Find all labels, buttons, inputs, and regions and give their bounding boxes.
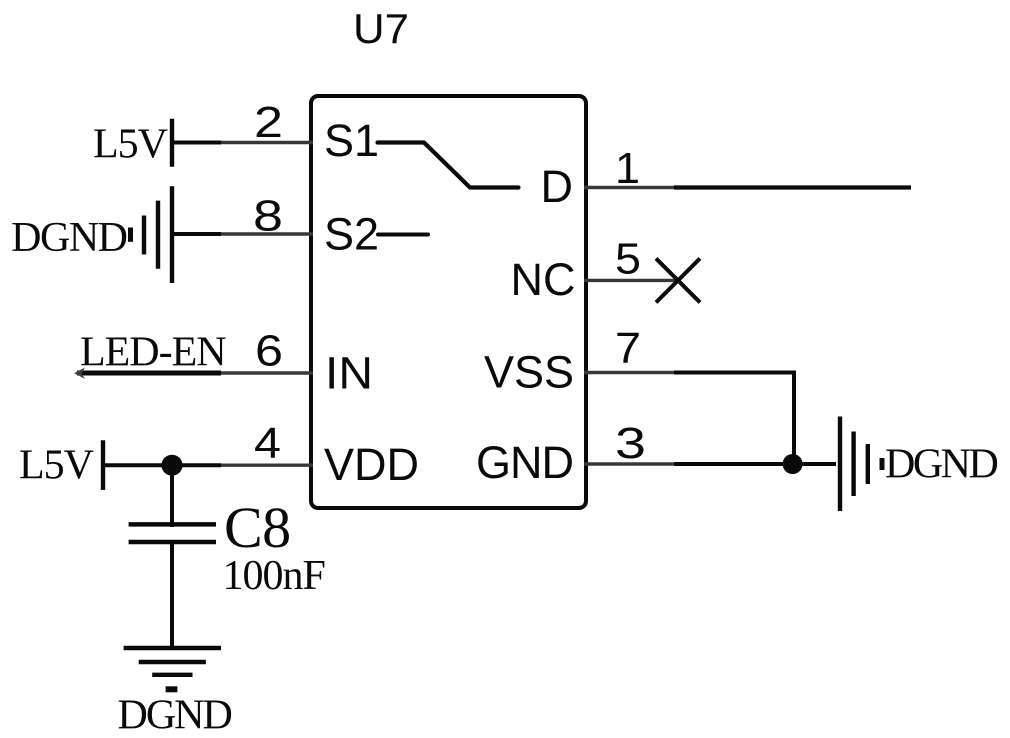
svg-text:DGND: DGND (885, 442, 997, 488)
wire C8 to ground (170, 540, 174, 650)
wire VDD node down to C8 (170, 465, 174, 527)
ground symbol DGND pin8 medium bar (156, 201, 160, 269)
wire GND pin3 to ground (674, 462, 836, 466)
ground symbol DGND right short bar (866, 444, 870, 484)
svg-text:L5V: L5V (93, 122, 168, 168)
ground symbol DGND pin8 dash (128, 228, 133, 242)
pin 4 stub (216, 464, 313, 467)
wire net D pin1 (674, 185, 911, 189)
ground symbol DGND pin8 short bar (142, 216, 146, 255)
junction dot at VDD (162, 455, 183, 476)
switch symbol S1 to D (378, 143, 519, 188)
svg-text:U7: U7 (353, 5, 409, 52)
terminal bar L5V pin2 (170, 119, 174, 167)
pin 6 stub (216, 371, 313, 374)
capacitor C8 top plate (129, 522, 216, 527)
pin 5 stub (584, 279, 679, 282)
svg-text:C8: C8 (224, 495, 291, 560)
pin 2 stub (216, 141, 313, 144)
svg-text:DGND: DGND (11, 215, 126, 261)
pin 8 stub (216, 232, 313, 235)
wire LED-EN to pin6 (77, 371, 221, 376)
ground symbol DGND bottom bar1 (124, 646, 221, 650)
svg-text:7: 7 (615, 324, 641, 373)
wire L5V to pin2 (172, 141, 221, 145)
pin 1 stub (584, 186, 678, 189)
svg-text:S2: S2 (324, 209, 379, 260)
wire DGND to pin8 (172, 232, 221, 236)
ground symbol DGND right medium bar (851, 432, 855, 497)
ground symbol DGND right tall bar (838, 417, 842, 512)
svg-text:GND: GND (476, 437, 573, 488)
pin 7 stub (584, 371, 678, 374)
svg-text:6: 6 (255, 327, 283, 376)
svg-text:IN: IN (325, 348, 373, 399)
svg-text:4: 4 (254, 419, 281, 468)
junction dot at GND (783, 454, 803, 474)
svg-text:DGND: DGND (118, 693, 232, 738)
svg-text:S1: S1 (324, 115, 379, 166)
svg-text:L5V: L5V (19, 443, 94, 489)
ground symbol DGND bottom bar2 (139, 660, 206, 664)
svg-text:3: 3 (615, 419, 646, 468)
svg-text:5: 5 (615, 235, 641, 284)
svg-text:2: 2 (254, 98, 283, 147)
wire VSS pin7 horizontal (674, 371, 794, 375)
svg-text:1: 1 (615, 144, 640, 193)
svg-text:VSS: VSS (484, 347, 574, 398)
svg-text:100nF: 100nF (223, 553, 325, 599)
svg-text:D: D (541, 161, 574, 212)
wire VSS pin7 vertical (792, 371, 796, 465)
ground symbol DGND bottom bar3 (152, 673, 192, 677)
capacitor C8 bottom plate (129, 540, 216, 545)
no-connect X at pin5 (656, 258, 700, 302)
wire L5V to pin4 (103, 463, 221, 467)
pin 3 stub (584, 462, 678, 465)
ground symbol DGND bottom dash (166, 686, 178, 692)
svg-text:LED-EN: LED-EN (80, 330, 226, 376)
terminal bar L5V pin4 (101, 440, 105, 490)
LED-EN wire entry arrow (74, 368, 85, 379)
svg-text:NC: NC (511, 254, 576, 305)
svg-text:VDD: VDD (324, 439, 419, 490)
S2 stub dash (378, 233, 428, 237)
IC U7 body (311, 96, 586, 508)
ground symbol DGND pin8 tall bar (170, 186, 174, 283)
ground symbol DGND right dash (880, 458, 885, 470)
